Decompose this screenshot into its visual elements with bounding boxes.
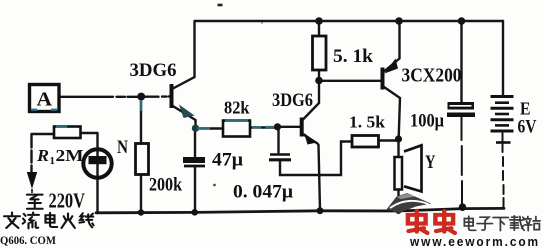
svg-text:82k: 82k xyxy=(224,98,250,118)
svg-text:100μ: 100μ xyxy=(410,112,444,132)
svg-text:www.eeworm.com: www.eeworm.com xyxy=(409,235,540,248)
svg-text:47μ: 47μ xyxy=(212,151,244,171)
svg-text:R: R xyxy=(36,146,49,165)
svg-text:3DG6: 3DG6 xyxy=(272,90,313,111)
svg-text:Q606. COM: Q606. COM xyxy=(0,233,56,247)
svg-text:6V: 6V xyxy=(518,118,538,138)
svg-text:220V: 220V xyxy=(49,189,86,213)
svg-text:1: 1 xyxy=(50,155,56,167)
svg-text:Y: Y xyxy=(425,152,436,173)
svg-text:3CX200: 3CX200 xyxy=(402,66,462,87)
svg-text:A: A xyxy=(37,89,53,111)
svg-text:E: E xyxy=(520,99,531,119)
svg-text:3DG6: 3DG6 xyxy=(130,60,177,81)
svg-text:200k: 200k xyxy=(149,175,182,196)
svg-text:1. 5k: 1. 5k xyxy=(349,113,386,132)
svg-text:5. 1k: 5. 1k xyxy=(333,47,374,67)
svg-text:2M: 2M xyxy=(56,146,84,165)
svg-text:N: N xyxy=(117,137,128,158)
svg-text:0. 047μ: 0. 047μ xyxy=(233,183,294,203)
